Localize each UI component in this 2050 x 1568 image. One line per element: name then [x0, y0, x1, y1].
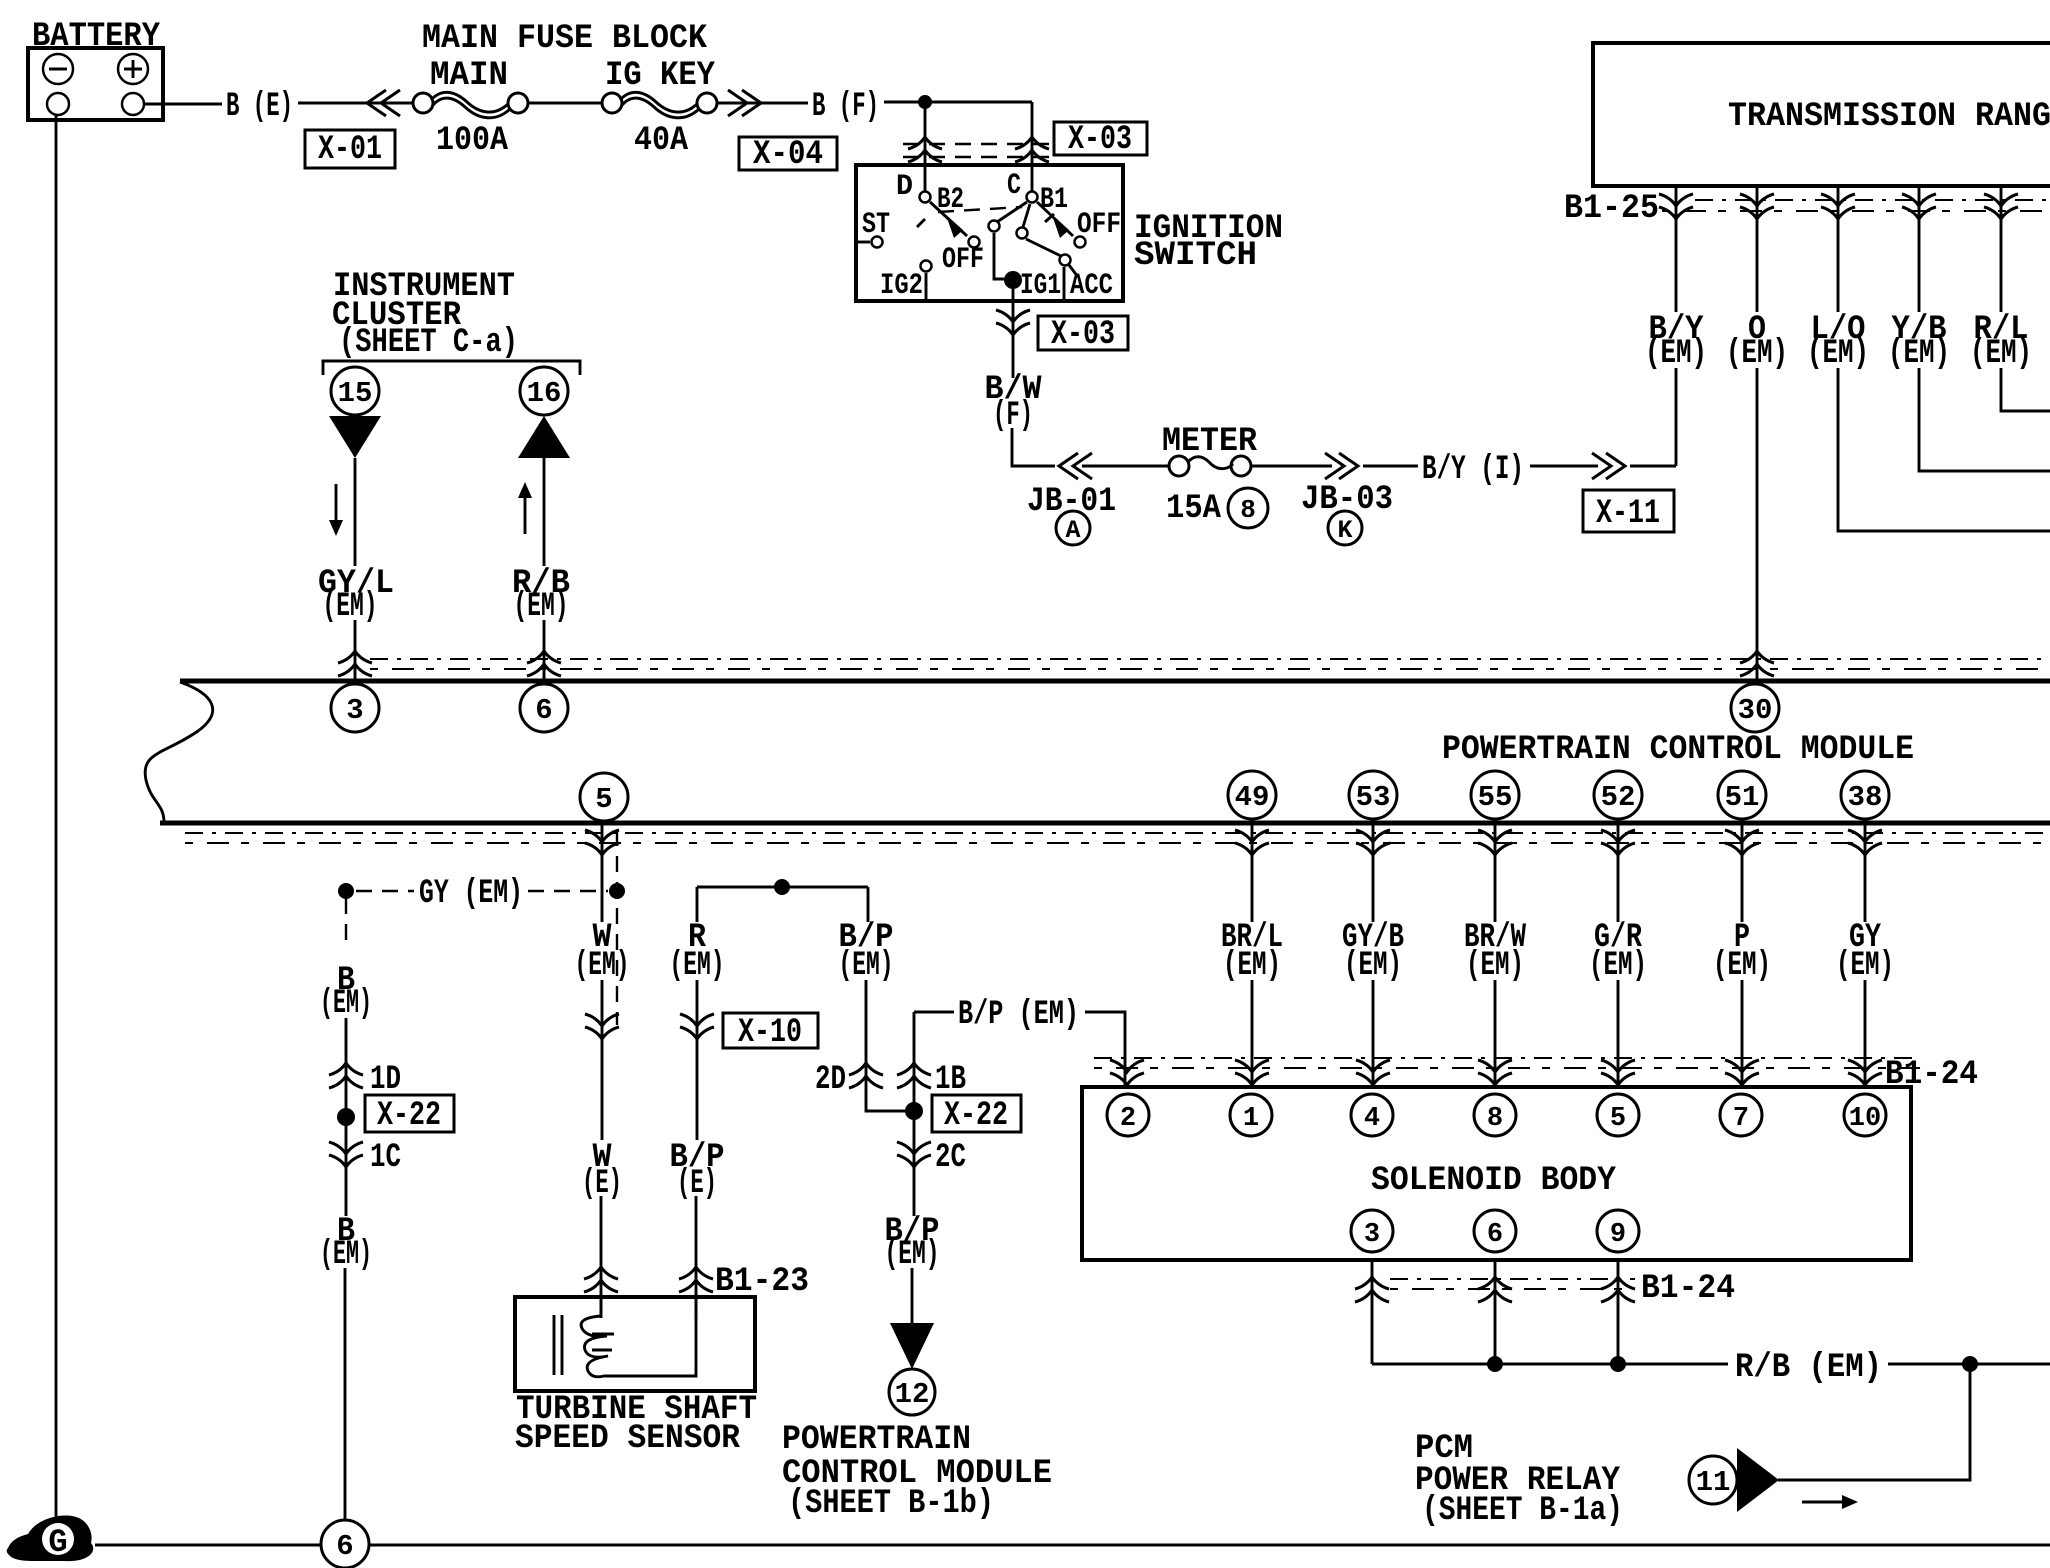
solenoid body box: [1082, 1087, 1911, 1260]
connector X-01 chevron: [367, 90, 400, 116]
svg-text:(EM): (EM): [839, 947, 894, 985]
PCM pin 52: [1594, 771, 1642, 819]
connector 1B chevron: [897, 1063, 931, 1088]
wiper B1 to OFF with arrow: [1037, 202, 1073, 236]
svg-text:X-11: X-11: [1596, 495, 1660, 533]
svg-text:IG KEY: IG KEY: [605, 57, 716, 95]
solenoid pin 3: [1351, 1210, 1393, 1252]
sensor box: [515, 1297, 755, 1391]
svg-text:OFF: OFF: [942, 243, 984, 277]
svg-text:OFF: OFF: [1077, 208, 1121, 242]
wire to PCM sheet B-1b arrow: [911, 1268, 914, 1330]
svg-text:16: 16: [527, 377, 562, 410]
junction node B(F): [918, 95, 932, 109]
solenoid pin 6: [1474, 1210, 1516, 1252]
wire battery negative down: [55, 115, 58, 1517]
svg-text:X-22: X-22: [944, 1097, 1008, 1135]
PCM pin 49: [1228, 771, 1276, 819]
solenoid pin 9: [1597, 1210, 1639, 1252]
svg-text:5: 5: [595, 783, 612, 816]
svg-text:(EM): (EM): [1713, 947, 1771, 985]
fuse rating pin 8: [1228, 488, 1268, 528]
svg-text:C: C: [1007, 169, 1021, 203]
wire W to sensor: [600, 1196, 603, 1316]
svg-text:SPEED SENSOR: SPEED SENSOR: [515, 1420, 741, 1458]
connector 2D chevron: [849, 1063, 883, 1088]
svg-text:X-03: X-03: [1068, 121, 1132, 159]
wire IG1 down from switch: [1012, 289, 1015, 378]
connector 1C chevron: [329, 1142, 363, 1167]
wire to B/Y (I): [1363, 465, 1418, 468]
connector X-01 label box: [305, 130, 395, 168]
pin B/Y chevron: [1675, 186, 1678, 222]
solenoid pin 1: [1230, 1094, 1272, 1136]
svg-text:GY (EM): GY (EM): [419, 875, 523, 913]
IG1 node: [1004, 271, 1022, 289]
wire B/P(E) to sensor: [695, 1196, 698, 1316]
wire fuse to JB-03: [1252, 465, 1332, 468]
flow arrow up: [524, 496, 527, 534]
wire R (EM): [696, 887, 699, 922]
core bars: [553, 1315, 556, 1375]
battery positive terminal: [118, 54, 148, 84]
pin R/L chevron: [2000, 186, 2003, 222]
svg-text:38: 38: [1848, 781, 1883, 814]
svg-text:B/P (EM): B/P (EM): [958, 996, 1079, 1034]
terminal B1: [1027, 192, 1038, 203]
svg-text:1: 1: [1243, 1104, 1259, 1134]
wire to PCM power relay: [1778, 1364, 1970, 1480]
svg-text:53: 53: [1356, 781, 1391, 814]
svg-text:15A: 15A: [1166, 490, 1222, 528]
svg-text:POWERTRAIN: POWERTRAIN: [782, 1421, 971, 1459]
svg-text:TRANSMISSION RANGE: TRANSMISSION RANGE: [1728, 98, 2050, 136]
connector JB-01 chevron: [1059, 453, 1092, 479]
wire R / B-P feeder: [697, 886, 868, 889]
wire O (EM): [1756, 222, 1759, 312]
PCM pin 6: [520, 684, 568, 732]
wire down to B1: [1031, 102, 1034, 197]
svg-text:5: 5: [1610, 1104, 1626, 1134]
pin O chevron: [1756, 186, 1759, 222]
terminal IG2: [921, 261, 932, 272]
pin 15: [331, 367, 379, 415]
connector B1-24 rail above solenoid: [1094, 1057, 1920, 1059]
svg-text:6: 6: [336, 1530, 353, 1563]
arrow out of pin 15: [329, 416, 381, 458]
svg-text:8: 8: [1487, 1104, 1503, 1134]
svg-text:SOLENOID BODY: SOLENOID BODY: [1371, 1162, 1617, 1200]
solenoid pin 7: [1720, 1094, 1762, 1136]
pin L/O chevron: [1837, 186, 1840, 222]
battery lower posts: [47, 93, 69, 115]
PCM pin 55: [1471, 771, 1519, 819]
svg-text:SWITCH: SWITCH: [1134, 237, 1257, 275]
svg-text:X-22: X-22: [377, 1097, 441, 1135]
svg-text:3: 3: [1364, 1220, 1380, 1250]
svg-text:3: 3: [346, 694, 363, 727]
connector chevrons into solenoid: [1110, 1060, 1144, 1085]
bracket: [323, 361, 580, 375]
svg-text:G: G: [48, 1524, 67, 1561]
wire B (EM) branch: [345, 898, 347, 948]
svg-text:MAIN FUSE BLOCK: MAIN FUSE BLOCK: [422, 20, 708, 58]
PCM pin 38: [1841, 771, 1889, 819]
svg-text:BATTERY: BATTERY: [32, 18, 161, 56]
splice X-22 node right: [905, 1102, 923, 1120]
svg-text:1C: 1C: [370, 1139, 401, 1177]
wire B/P (EM) branch to solenoid pin 2: [914, 1011, 954, 1014]
wire battery+ to B(E): [144, 103, 222, 106]
connector X-03 label box: [1054, 122, 1147, 155]
svg-text:(EM): (EM): [1970, 335, 2032, 373]
battery box: [28, 48, 163, 120]
connector X-04 chevron: [728, 90, 761, 116]
svg-text:(EM): (EM): [670, 947, 725, 985]
svg-text:(SHEET C-a): (SHEET C-a): [339, 324, 518, 362]
svg-text:11: 11: [1696, 1466, 1731, 1499]
wire down to B2: [924, 102, 927, 197]
solenoid pin 4: [1351, 1094, 1393, 1136]
svg-text:(EM): (EM): [514, 588, 569, 626]
junction node: [774, 879, 790, 895]
connector X-03 label box lower: [1038, 316, 1128, 350]
wire fuse to B(F): [717, 102, 808, 105]
battery negative terminal: [43, 54, 73, 84]
solenoid pin 10: [1844, 1094, 1886, 1136]
svg-text:6: 6: [1487, 1220, 1503, 1250]
svg-text:(EM): (EM): [1836, 947, 1894, 985]
svg-text:B (E): B (E): [226, 88, 293, 126]
svg-text:12: 12: [895, 1378, 930, 1411]
wire W from pin 5: [601, 823, 604, 922]
svg-text:(EM): (EM): [575, 947, 630, 985]
svg-text:B/Y (I): B/Y (I): [1422, 451, 1524, 489]
svg-text:(EM): (EM): [1888, 335, 1950, 373]
svg-text:1B: 1B: [935, 1061, 966, 1099]
svg-text:B (F): B (F): [812, 88, 879, 126]
solenoid pin 5: [1597, 1094, 1639, 1136]
PCM pin 51: [1718, 771, 1766, 819]
svg-text:2: 2: [1120, 1104, 1136, 1134]
solenoid pin 8: [1474, 1094, 1516, 1136]
transmission range switch box: [1593, 43, 2050, 186]
PCM pin 5: [580, 773, 628, 821]
svg-text:52: 52: [1601, 781, 1636, 814]
flow arrow down: [335, 484, 338, 522]
pin 16: [520, 367, 568, 415]
svg-text:49: 49: [1235, 781, 1270, 814]
svg-text:(SHEET B-1b): (SHEET B-1b): [788, 1485, 994, 1523]
connector X-04 label box: [739, 137, 837, 170]
svg-text:4: 4: [1364, 1104, 1380, 1134]
wire B down to ground pin 6: [344, 1268, 347, 1522]
wire B/Y (EM): [1675, 222, 1678, 312]
svg-text:B1-24: B1-24: [1641, 1270, 1735, 1308]
svg-text:(EM): (EM): [1726, 335, 1788, 373]
svg-text:2D: 2D: [815, 1061, 846, 1099]
dashed stub beside pin5 wire: [616, 830, 618, 1025]
pin Y/B chevron: [1918, 186, 1921, 222]
wire R/L (EM): [2000, 222, 2003, 312]
svg-text:(EM): (EM): [1807, 335, 1869, 373]
wires continue to solenoid top: [1251, 980, 1254, 1085]
wiper contact circles from B1: [997, 202, 1027, 222]
connector 2C chevron: [897, 1142, 931, 1167]
splice X-22 label box right: [932, 1095, 1021, 1132]
connector JB-03 chevron: [1325, 453, 1358, 479]
svg-text:15: 15: [338, 377, 373, 410]
wire jog to splice: [866, 1096, 905, 1111]
svg-text:(EM): (EM): [323, 588, 378, 626]
svg-text:K: K: [1337, 516, 1352, 545]
rail below PCM: [185, 832, 2050, 834]
svg-text:2C: 2C: [935, 1139, 966, 1177]
wire GY/L: [354, 458, 357, 566]
pin 12: [889, 1369, 935, 1415]
splice X-22 label box: [365, 1095, 454, 1132]
ACC separator line: [1063, 267, 1066, 300]
connector X-03 chevron below switch: [996, 310, 1030, 335]
svg-text:10: 10: [1849, 1104, 1881, 1134]
connector B1-25 rail: [1695, 199, 2050, 201]
connector X-11 chevron: [1592, 453, 1625, 479]
connector X-03 chevrons: [908, 137, 942, 162]
svg-text:55: 55: [1478, 781, 1513, 814]
PCM pin 3: [331, 684, 379, 732]
svg-text:ACC: ACC: [1070, 269, 1113, 303]
svg-text:B1-25: B1-25: [1564, 190, 1659, 228]
svg-text:POWERTRAIN CONTROL MODULE: POWERTRAIN CONTROL MODULE: [1442, 731, 1914, 769]
splice GY (EM) dashed wire: [338, 883, 354, 899]
svg-text:IG1: IG1: [1020, 269, 1061, 303]
PCM bottom edge: [160, 821, 2050, 826]
wire Y/B (EM): [1918, 222, 1921, 312]
svg-text:IG2: IG2: [880, 269, 923, 303]
wire down through 1B: [913, 1012, 916, 1216]
wires PCM pins 49-38 down to solenoid: [1251, 823, 1254, 922]
svg-text:X-04: X-04: [753, 136, 823, 174]
pin 11 arrow: [1737, 1448, 1779, 1512]
svg-text:X-10: X-10: [738, 1014, 802, 1052]
ground G car symbol: [7, 1515, 94, 1561]
wire B(F) to ignition switch: [884, 101, 1032, 104]
arrow into pin 16: [518, 416, 570, 458]
svg-text:(EM): (EM): [1589, 947, 1647, 985]
ground bus wire: [95, 1544, 2050, 1547]
wire L/O (EM): [1837, 222, 1840, 312]
R/B (EM) bus: [1372, 1363, 1728, 1366]
svg-text:(SHEET B-1a): (SHEET B-1a): [1422, 1492, 1623, 1530]
svg-text:(EM): (EM): [1645, 335, 1707, 373]
svg-text:D: D: [896, 170, 913, 204]
meter fuse symbol: [1169, 456, 1189, 476]
connector B1-24 below solenoid: [1371, 1260, 1374, 1364]
wiper B2 to OFF with arrow: [930, 202, 967, 236]
svg-text:100A: 100A: [436, 122, 509, 160]
wire B/W down and right to meter fuse: [1012, 428, 1055, 466]
splice X-22 node: [337, 1108, 355, 1126]
svg-text:(EM): (EM): [320, 985, 372, 1023]
contact diagonal to ACC: [1026, 239, 1061, 256]
wire W continues: [601, 980, 604, 1140]
svg-text:7: 7: [1733, 1104, 1749, 1134]
svg-text:X-01: X-01: [318, 131, 382, 169]
svg-text:R/B (EM): R/B (EM): [1735, 1349, 1882, 1387]
flow arrow right: [1802, 1501, 1844, 1504]
wire B(E) to fuse: [298, 102, 413, 105]
svg-text:A: A: [1065, 516, 1080, 545]
svg-text:40A: 40A: [634, 122, 689, 160]
svg-text:(EM): (EM): [1344, 947, 1402, 985]
svg-text:(EM): (EM): [1223, 947, 1281, 985]
PCM pin 53: [1349, 771, 1397, 819]
solenoid pin 2: [1107, 1094, 1149, 1136]
connector X-11 label box: [1583, 490, 1674, 532]
ignition switch box: [856, 165, 1123, 301]
svg-text:MAIN: MAIN: [430, 57, 508, 95]
ground pin 6: [321, 1520, 369, 1568]
svg-text:X-03: X-03: [1051, 316, 1115, 354]
svg-text:1D: 1D: [370, 1061, 401, 1099]
connector 1D chevron: [329, 1063, 363, 1088]
wire R/B: [543, 458, 546, 566]
wire between fuses: [528, 102, 602, 105]
wire B/P (EM): [867, 887, 870, 922]
connector X-10 label box: [723, 1013, 818, 1048]
PCM pin 30: [1731, 684, 1779, 732]
svg-text:30: 30: [1738, 694, 1773, 727]
PCM top edge: [180, 679, 2050, 684]
svg-text:6: 6: [535, 694, 552, 727]
svg-text:51: 51: [1725, 781, 1760, 814]
JB-03 pin K: [1328, 511, 1362, 545]
svg-text:(EM): (EM): [1466, 947, 1524, 985]
svg-text:8: 8: [1240, 495, 1256, 525]
PCM torn left edge: [145, 682, 213, 822]
svg-text:B1: B1: [1040, 183, 1068, 217]
contact path to IG1: [994, 233, 1004, 279]
dashed travel line B2-B1: [938, 207, 1022, 212]
JB-01 pin A: [1056, 511, 1090, 545]
terminal B2: [920, 192, 931, 203]
svg-text:9: 9: [1610, 1220, 1626, 1250]
coil: [581, 1316, 696, 1377]
